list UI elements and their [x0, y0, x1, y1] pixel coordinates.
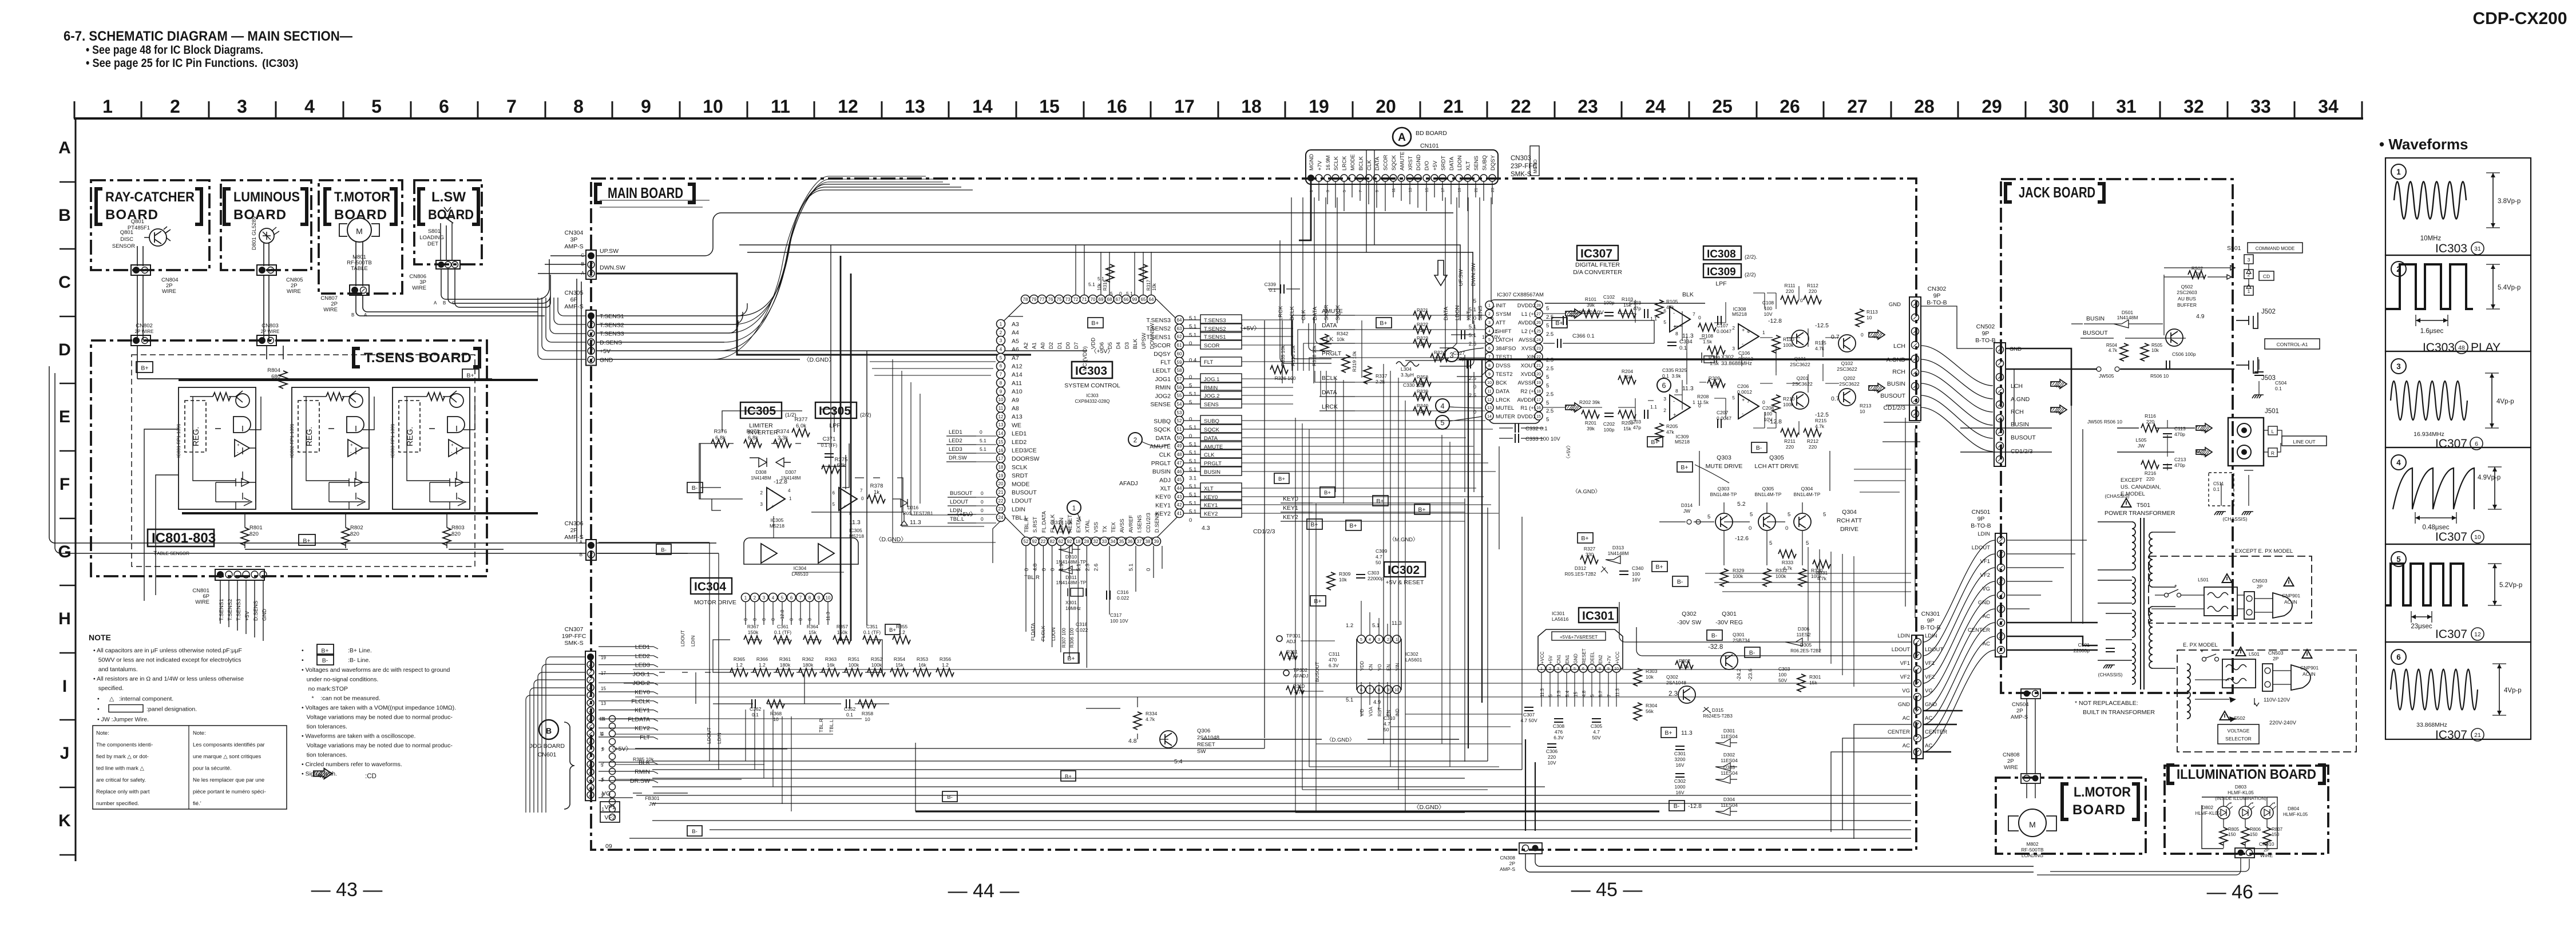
svg-text:C504: C504	[2275, 380, 2287, 386]
svg-text:R374: R374	[776, 429, 790, 435]
svg-text:SQCK: SQCK	[1154, 426, 1171, 433]
svg-text:ted line with mark △: ted line with mark △	[96, 766, 145, 772]
svg-text:FLCLK: FLCLK	[631, 698, 650, 705]
svg-text:4.9: 4.9	[1373, 699, 1381, 706]
IC303 right pin column	[1175, 316, 1184, 324]
svg-text:DVDD1: DVDD1	[1517, 414, 1536, 420]
svg-text:A: A	[434, 300, 437, 306]
svg-text:39k: 39k	[1587, 302, 1595, 308]
svg-text:BUSOUT: BUSOUT	[2011, 434, 2036, 441]
svg-text:0: 0	[1146, 568, 1152, 571]
svg-text:TBL.R: TBL.R	[1024, 517, 1030, 533]
svg-text:1: 1	[1000, 322, 1002, 327]
svg-text:2SC3622: 2SC3622	[1837, 366, 1857, 372]
svg-text:LED2: LED2	[949, 438, 962, 444]
svg-text:LOADING: LOADING	[2022, 853, 2043, 858]
wire bus y=1390	[636, 795, 1911, 796]
svg-text:M5218: M5218	[1732, 311, 1747, 317]
waveform marker 6	[1657, 378, 1671, 392]
svg-text:JW505 R506 10: JW505 R506 10	[2087, 419, 2122, 425]
svg-text:6: 6	[1488, 347, 1491, 351]
svg-text:46: 46	[1177, 469, 1182, 474]
svg-text:BUSOUT: BUSOUT	[950, 490, 973, 497]
svg-text:IC305: IC305	[819, 405, 851, 418]
svg-text:BCK: BCK	[1496, 380, 1507, 386]
svg-text:-: -	[237, 450, 239, 455]
svg-text:• See page 25 for IC Pin Funct: • See page 25 for IC Pin Functions.	[86, 57, 257, 70]
transformer windings	[2132, 522, 2135, 570]
svg-text:2.6: 2.6	[1093, 564, 1100, 571]
svg-text:5.7: 5.7	[1598, 690, 1603, 697]
svg-text:2SC3622: 2SC3622	[1790, 362, 1810, 367]
svg-text:100k: 100k	[871, 662, 882, 668]
svg-text:C340: C340	[1632, 565, 1644, 571]
svg-text:92: 92	[1067, 539, 1072, 544]
svg-text:3: 3	[602, 792, 605, 797]
svg-text:17: 17	[998, 456, 1004, 461]
svg-text:R361: R361	[779, 656, 791, 662]
svg-text:R354: R354	[894, 656, 906, 662]
connector CN308	[1519, 843, 1542, 854]
svg-text:1: 1	[1396, 638, 1398, 642]
svg-text:4.7k: 4.7k	[1680, 664, 1690, 669]
svg-text:1N4148M -TP: 1N4148M -TP	[1056, 559, 1087, 565]
LED D804	[2261, 806, 2273, 819]
svg-text:D3: D3	[1124, 342, 1130, 349]
svg-text:54: 54	[1177, 402, 1182, 407]
svg-text:CLK: CLK	[1301, 310, 1307, 320]
svg-text:B+: B+	[1349, 522, 1357, 529]
svg-text:15: 15	[601, 686, 606, 691]
svg-text:44: 44	[1177, 486, 1182, 491]
svg-text:3200: 3200	[1675, 756, 1686, 762]
svg-text:AVSSL: AVSSL	[1519, 337, 1536, 343]
svg-text:C335 R325: C335 R325	[1662, 367, 1687, 373]
transistor in cell IC802	[349, 394, 363, 407]
svg-text:1: 1	[2396, 168, 2401, 176]
switch	[2202, 657, 2206, 661]
svg-text:C206: C206	[1737, 383, 1749, 389]
svg-text:D301: D301	[1723, 728, 1735, 734]
svg-text:43: 43	[1177, 494, 1182, 500]
IC307 pin R2 (+)	[1535, 387, 1543, 395]
svg-text:100: 100	[1764, 411, 1772, 417]
svg-text:Q303: Q303	[1718, 486, 1730, 492]
resistor R361	[776, 668, 794, 676]
heavy B+ rail vertical right	[1264, 320, 1265, 738]
resistor R363	[822, 668, 839, 676]
svg-text:CN808: CN808	[2003, 752, 2020, 758]
svg-text:50: 50	[1376, 560, 1381, 565]
svg-text:3: 3	[1378, 638, 1380, 642]
svg-text:〈D.GND〉: 〈D.GND〉	[875, 536, 907, 543]
svg-text:A5: A5	[1012, 338, 1019, 344]
svg-text:CN803: CN803	[261, 323, 279, 329]
svg-text:R215: R215	[1815, 418, 1827, 423]
svg-text:B: B	[351, 312, 354, 318]
resistor R357	[833, 636, 851, 644]
svg-text:B+: B+	[1314, 598, 1321, 605]
svg-text:R321: R321	[1417, 307, 1429, 313]
svg-text:C361: C361	[777, 624, 789, 629]
svg-text:10k: 10k	[1646, 674, 1654, 680]
B+ label	[1647, 437, 1663, 447]
svg-text:60: 60	[1177, 351, 1182, 356]
resistor R327 330	[1580, 556, 1598, 564]
svg-text:T.SENS3: T.SENS3	[600, 331, 624, 338]
svg-text:R201: R201	[1585, 420, 1597, 426]
svg-text:19: 19	[1309, 96, 1329, 117]
svg-text:DWN.SW: DWN.SW	[1471, 263, 1477, 286]
svg-text:3: 3	[1663, 396, 1666, 402]
svg-text:D313: D313	[1612, 545, 1624, 550]
svg-text:+: +	[1673, 324, 1677, 330]
svg-text:99: 99	[1132, 297, 1138, 302]
svg-text:T.SENS2: T.SENS2	[600, 322, 624, 328]
svg-text:12: 12	[838, 96, 858, 117]
S501 input arrows	[2208, 268, 2230, 277]
svg-text:TBL.R: TBL.R	[818, 719, 824, 732]
heavy AC feeds to transformer	[2007, 623, 2098, 650]
signal arrow RCH	[1869, 383, 1885, 393]
svg-text:2: 2	[1732, 325, 1735, 331]
svg-text:220: 220	[1809, 444, 1817, 450]
svg-text:27: 27	[1536, 312, 1541, 316]
svg-text:number specified.: number specified.	[96, 801, 139, 807]
svg-text:R319 10k: R319 10k	[1352, 351, 1357, 372]
svg-text:15k: 15k	[1623, 374, 1631, 380]
svg-text:23: 23	[998, 506, 1004, 512]
svg-text:5: 5	[1546, 400, 1549, 406]
op-amp IC309 B	[1738, 394, 1759, 419]
transistor Q201 2SC3622	[1792, 392, 1809, 409]
svg-text:2P: 2P	[2016, 708, 2023, 714]
svg-text:5: 5	[1769, 540, 1772, 546]
svg-text:470: 470	[1329, 657, 1337, 663]
signal arrows at CN502	[2051, 379, 2067, 389]
svg-text:CNP901: CNP901	[2282, 593, 2300, 599]
svg-text:9P: 9P	[1982, 330, 1990, 337]
svg-text:IC305: IC305	[771, 517, 784, 523]
long top bus wires	[739, 245, 1473, 324]
transistor Q301	[1721, 652, 1738, 669]
svg-text:R105: R105	[1666, 299, 1678, 304]
resistor R354	[890, 668, 908, 676]
svg-text:0.7: 0.7	[1831, 334, 1840, 340]
resistor R355	[893, 636, 910, 644]
svg-text:R367: R367	[747, 624, 759, 629]
svg-text:0: 0	[1762, 399, 1765, 405]
svg-text:53: 53	[1177, 410, 1182, 415]
svg-text:R306 100: R306 100	[1069, 628, 1075, 648]
connector CN804	[131, 265, 150, 275]
waveform 5: square 23usec IC307 pin12	[2391, 552, 2406, 566]
svg-text:XLT: XLT	[1465, 161, 1472, 171]
IC307 pin XVDD	[1535, 370, 1543, 378]
resistor R110 100k	[1772, 335, 1780, 353]
svg-text:+: +	[771, 504, 775, 510]
svg-text:180k: 180k	[803, 662, 814, 668]
svg-text:D/A CONVERTER: D/A CONVERTER	[1573, 269, 1622, 276]
svg-text:4: 4	[772, 596, 775, 601]
svg-text:+: +	[1742, 327, 1745, 334]
B- label	[687, 482, 703, 493]
svg-text:15: 15	[1425, 188, 1429, 192]
svg-text:9P: 9P	[1927, 617, 1935, 624]
svg-text:MODE: MODE	[1012, 481, 1030, 488]
svg-text:R385 10k: R385 10k	[633, 756, 654, 762]
svg-text:KEY1: KEY1	[635, 707, 650, 714]
svg-text:1.5k: 1.5k	[1710, 360, 1719, 366]
svg-text:J502: J502	[2261, 308, 2276, 315]
svg-text:VDD: VDD	[1360, 661, 1365, 671]
drive cluster wires	[1699, 451, 1830, 565]
svg-text:JOG.1: JOG.1	[633, 671, 651, 678]
svg-text:D6: D6	[1099, 342, 1105, 349]
l.motor board outline	[1996, 778, 2146, 854]
t.sens inner dashed outline	[132, 355, 475, 566]
svg-text:-: -	[1673, 398, 1675, 405]
svg-text:CLK: CLK	[1159, 451, 1171, 458]
svg-text:R317: R317	[1146, 279, 1151, 291]
svg-text:10: 10	[1487, 381, 1492, 385]
svg-text:T.SENS2: T.SENS2	[227, 599, 233, 621]
svg-text:BOARD: BOARD	[428, 207, 474, 223]
svg-text:BUSOUT: BUSOUT	[1012, 489, 1037, 496]
svg-text:19: 19	[1536, 381, 1541, 385]
svg-text:18: 18	[1536, 390, 1541, 394]
resistor R803 820	[443, 528, 451, 545]
bottom heavy bus wire	[182, 512, 538, 514]
svg-text:9P: 9P	[1933, 292, 1941, 299]
svg-text:26: 26	[1780, 96, 1800, 117]
svg-text:25: 25	[1712, 96, 1733, 117]
svg-text:27: 27	[1847, 96, 1868, 117]
svg-text:R357: R357	[837, 624, 849, 629]
svg-text:17: 17	[601, 671, 606, 676]
svg-text:0.1 (TF): 0.1 (TF)	[774, 629, 791, 635]
B+ label left	[136, 362, 153, 373]
svg-text:SENSOR: SENSOR	[112, 243, 135, 249]
R326 100	[1270, 366, 1288, 374]
svg-text:RMIN: RMIN	[1155, 385, 1171, 391]
svg-text:DATA: DATA	[1322, 322, 1337, 329]
main board label	[596, 184, 602, 203]
svg-text:S501: S501	[2227, 245, 2241, 252]
IC307 pin DVDD2	[1535, 301, 1543, 309]
IC302 wires	[1301, 601, 1388, 716]
main board outline	[591, 179, 1916, 850]
svg-text:R353: R353	[917, 656, 929, 662]
svg-text:IC307: IC307	[2435, 728, 2467, 742]
svg-text:Voltage variations may be note: Voltage variations may be noted due to n…	[302, 742, 453, 749]
svg-text:B-TO-B: B-TO-B	[1975, 337, 1995, 344]
svg-text:SENS: SENS	[1204, 402, 1219, 408]
resistor R804	[279, 371, 287, 389]
svg-text:A: A	[580, 540, 583, 545]
svg-text:• △ :internal component: • △ :internal component.	[97, 696, 173, 703]
svg-text:TBL.L: TBL.L	[829, 719, 834, 732]
svg-text:13: 13	[1409, 188, 1413, 192]
resistors right of IC303	[1321, 334, 1329, 352]
svg-text:〈D.GND〉: 〈D.GND〉	[1326, 737, 1355, 743]
svg-text:2P WIRE: 2P WIRE	[135, 329, 154, 334]
signal arrow LCH	[1869, 330, 1885, 339]
svg-text:5: 5	[781, 596, 784, 601]
svg-text:76: 76	[1048, 297, 1053, 302]
svg-text:3: 3	[2396, 362, 2401, 371]
svg-text:DQSY: DQSY	[1154, 351, 1171, 358]
wires up to S501	[2164, 268, 2208, 335]
svg-text:UP.SW: UP.SW	[600, 248, 619, 255]
svg-text:4: 4	[2396, 458, 2401, 467]
svg-text:AVSSR: AVSSR	[1517, 380, 1536, 386]
svg-text:0: 0	[1119, 291, 1122, 296]
svg-text:AMP-S: AMP-S	[564, 243, 583, 250]
svg-text:B+: B+	[1555, 320, 1563, 327]
svg-text:5.1: 5.1	[1189, 324, 1196, 330]
svg-text:A10: A10	[1012, 389, 1023, 395]
svg-text:1: 1	[1693, 399, 1695, 405]
svg-text:LDOUT: LDOUT	[706, 727, 712, 744]
resistor R323 1k	[1413, 339, 1431, 347]
svg-text:A14: A14	[1012, 371, 1023, 378]
svg-text:100: 100	[1778, 672, 1786, 678]
svg-text:CN305: CN305	[565, 290, 584, 296]
svg-text:5.1: 5.1	[1189, 500, 1196, 506]
svg-text:16V: 16V	[1675, 790, 1684, 795]
svg-text:IC307: IC307	[2435, 628, 2467, 641]
svg-text:D: D	[58, 340, 71, 359]
svg-text:R337: R337	[1376, 373, 1388, 379]
IC307 pin XOUT	[1535, 361, 1543, 369]
IC307 pin TEST2	[1485, 370, 1493, 378]
svg-text:R318 10k: R318 10k	[1311, 345, 1317, 366]
svg-text:B+: B+	[1681, 464, 1688, 471]
svg-text:2SC3622: 2SC3622	[1792, 381, 1813, 387]
svg-text:BCLK: BCLK	[1358, 156, 1364, 171]
svg-text:82: 82	[1050, 539, 1055, 544]
svg-text:AC IN: AC IN	[2284, 599, 2297, 605]
svg-text:M: M	[356, 227, 363, 236]
svg-text:A.GND: A.GND	[2011, 396, 2030, 403]
svg-text:20: 20	[1376, 96, 1396, 117]
svg-text:R505: R505	[2151, 343, 2163, 348]
svg-text:4: 4	[1747, 328, 1750, 334]
wires S801 to CN806	[441, 223, 452, 260]
svg-text:B+: B+	[466, 373, 474, 379]
svg-text:1.1: 1.1	[1650, 404, 1657, 410]
svg-text:Voltage variations may be note: Voltage variations may be noted due to n…	[302, 714, 453, 721]
svg-text:R2 (+): R2 (+)	[1520, 389, 1536, 395]
IC307 pin INIT	[1485, 301, 1493, 309]
svg-text:-12.6: -12.6	[1735, 535, 1749, 542]
svg-text:5.1: 5.1	[1128, 564, 1134, 571]
svg-text:JW: JW	[2138, 443, 2145, 449]
svg-text:5: 5	[1590, 694, 1595, 697]
wire DWN.SW right (heavy)	[596, 274, 1031, 355]
resistor R334 4.7k	[1134, 712, 1142, 730]
IC307 pin AVDDR	[1535, 395, 1543, 403]
svg-text:11.3: 11.3	[1540, 688, 1545, 697]
svg-text:64: 64	[1177, 318, 1182, 323]
svg-text:B+: B+	[321, 648, 328, 655]
svg-text:16: 16	[998, 448, 1004, 453]
waveform 3: sine 16.934MHz IC307 pin6	[2391, 359, 2406, 374]
svg-text:24: 24	[998, 515, 1004, 520]
svg-text:CN308: CN308	[1500, 855, 1516, 861]
resistor R356	[936, 668, 954, 676]
svg-text:R111: R111	[1784, 283, 1795, 288]
ray-catcher board outline	[91, 180, 209, 270]
svg-text:09: 09	[605, 843, 612, 850]
svg-text:JW505: JW505	[2099, 373, 2114, 379]
svg-text:B+: B+	[1581, 535, 1588, 542]
svg-text:BUSOUT: BUSOUT	[1880, 393, 1905, 399]
svg-text:pour la sécurité.: pour la sécurité.	[193, 766, 232, 772]
svg-text:D801 GL528V: D801 GL528V	[251, 215, 257, 250]
CN308 wires down	[1525, 854, 2034, 872]
IC307 pin DATA	[1485, 387, 1493, 395]
svg-text:SMK-S: SMK-S	[564, 640, 583, 647]
wire bus y=1465	[629, 838, 1911, 839]
CN307 left wires	[526, 657, 585, 813]
svg-text:R302: R302	[1679, 658, 1691, 664]
svg-text:8: 8	[573, 96, 584, 117]
svg-text:7: 7	[1607, 694, 1612, 697]
svg-text:T.SENS1: T.SENS1	[1146, 334, 1171, 340]
svg-text:SUBQ: SUBQ	[1481, 155, 1488, 171]
svg-text:IC803 RP1-1391: IC803 RP1-1391	[390, 423, 395, 458]
jog connector pin column	[609, 716, 616, 722]
svg-text:11.3: 11.3	[910, 519, 921, 526]
svg-text:• Voltages are taken with a VO: • Voltages are taken with a VOM((nput im…	[302, 704, 456, 711]
wires from IC304 triangles up to IC305	[774, 516, 844, 572]
svg-text:R502: R502	[2191, 266, 2204, 271]
connector CN802 on border	[131, 335, 150, 346]
svg-text:5.1: 5.1	[1469, 307, 1476, 313]
svg-text:100k: 100k	[849, 662, 859, 668]
svg-text:(CHASSIS): (CHASSIS)	[2223, 516, 2248, 522]
svg-text:5: 5	[1110, 291, 1113, 296]
svg-text:13: 13	[601, 701, 606, 706]
svg-text:5: 5	[1663, 319, 1666, 325]
waveform marker 2 CLK	[1128, 433, 1142, 446]
l.sw board outline	[414, 180, 482, 264]
svg-text:AMUTE: AMUTE	[1399, 152, 1405, 171]
jog connector brace	[564, 722, 574, 809]
svg-text:L2 (+): L2 (+)	[1521, 328, 1536, 335]
svg-text:* NOT REPLACEABLE:: * NOT REPLACEABLE:	[2075, 700, 2138, 707]
svg-text:R209: R209	[1709, 375, 1721, 381]
svg-text:R801: R801	[249, 525, 263, 531]
svg-text:IC304: IC304	[694, 580, 726, 593]
svg-text:4.9Vp-p: 4.9Vp-p	[2478, 474, 2500, 481]
svg-text:6.8k: 6.8k	[748, 435, 758, 441]
svg-text:R204: R204	[1622, 369, 1634, 374]
svg-text:• All capacitors are in μF unl: • All capacitors are in μF unless otherw…	[93, 647, 242, 654]
svg-text:0: 0	[1785, 525, 1788, 532]
svg-text:TABLE: TABLE	[351, 266, 367, 272]
svg-text:L.SW: L.SW	[431, 189, 466, 205]
svg-text:D/O: D/O	[1424, 161, 1430, 171]
op-amp in cell IC802	[348, 439, 363, 457]
waveform marker 3	[1445, 348, 1459, 362]
svg-text:CN503: CN503	[2268, 650, 2284, 656]
svg-text:50: 50	[1177, 435, 1182, 441]
svg-text:39k: 39k	[1587, 426, 1595, 431]
IC307 pin DVDD1	[1535, 412, 1543, 420]
